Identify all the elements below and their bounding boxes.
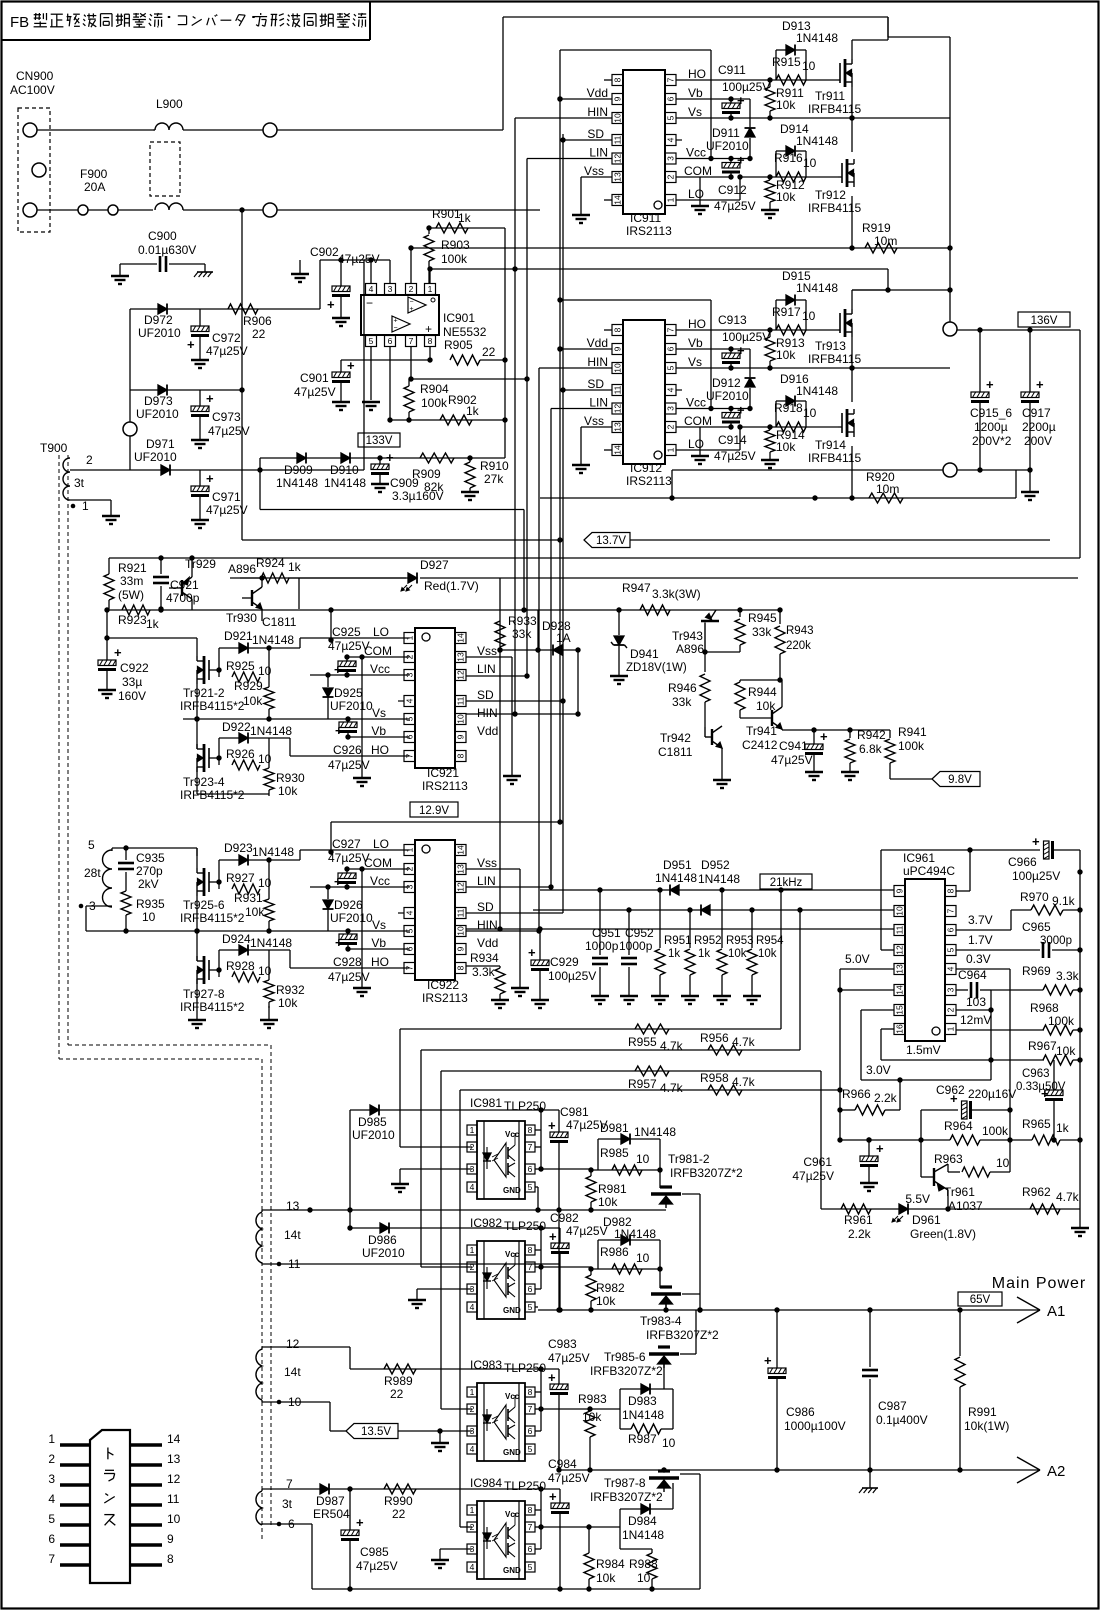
- svg-text:10: 10: [662, 1436, 676, 1450]
- svg-text:1N4148: 1N4148: [614, 1227, 656, 1241]
- diode D922: [239, 733, 248, 744]
- svg-text:C951: C951: [592, 926, 621, 940]
- svg-text:4: 4: [666, 387, 676, 392]
- svg-text:270p: 270p: [136, 864, 163, 878]
- wire right rail x1080: [1079, 330, 1081, 558]
- diode D983 label: [622, 1394, 664, 1422]
- wire D909 line: [260, 457, 505, 459]
- svg-text:10k: 10k: [596, 1294, 616, 1308]
- transistor Tr925-6 label: [180, 898, 245, 925]
- svg-text:160V: 160V: [118, 689, 146, 703]
- ground D941: [610, 676, 628, 684]
- svg-text:Vcc: Vcc: [686, 146, 706, 160]
- wire 12 line: [262, 1347, 350, 1369]
- IC901 label: [443, 311, 487, 339]
- svg-text:+: +: [549, 1489, 557, 1504]
- resistor R943: [775, 610, 785, 680]
- svg-text:1N4148: 1N4148: [655, 871, 697, 885]
- svg-text:6: 6: [528, 1284, 533, 1294]
- transistor Tr941 label: [742, 724, 778, 752]
- IC911 pin label LO: [688, 187, 704, 201]
- resistor R921: [104, 558, 114, 609]
- IC921 pin label LO: [373, 625, 389, 639]
- diode D909: [297, 453, 306, 464]
- svg-text:C963: C963: [1022, 1068, 1050, 1080]
- resistor R934 label: [470, 951, 499, 979]
- svg-text:2: 2: [48, 1452, 55, 1466]
- svg-text:C971: C971: [212, 490, 241, 504]
- svg-text:R965: R965: [1022, 1117, 1051, 1131]
- svg-text:R967: R967: [1028, 1039, 1057, 1053]
- IC911 pin label Vdd: [587, 86, 608, 100]
- svg-text:1N4148: 1N4148: [796, 384, 838, 398]
- wire IC922 Vcc line: [310, 886, 410, 888]
- capacitor C962 label: [936, 1083, 1016, 1101]
- svg-text:IC961: IC961: [903, 851, 935, 865]
- svg-text:D910: D910: [330, 463, 359, 477]
- resistor R914 label: [776, 428, 805, 454]
- wire D927 right: [0, 0, 1, 1]
- svg-text:IRFB4115*2: IRFB4115*2: [180, 1000, 245, 1014]
- ground C900 left: [111, 264, 129, 284]
- transformer pins: [48, 1432, 180, 1566]
- ground IC901 pin5: [362, 402, 380, 410]
- ground C952: [620, 996, 638, 1004]
- svg-text:R953: R953: [726, 935, 754, 947]
- svg-text:1N4148: 1N4148: [622, 1528, 664, 1542]
- svg-text:D941: D941: [630, 647, 659, 661]
- capacitor C983 label: [548, 1337, 590, 1365]
- svg-text:1: 1: [428, 284, 433, 294]
- svg-text:3t: 3t: [282, 1497, 293, 1511]
- resistor R957: [441, 1066, 821, 1076]
- IC901 pin 1: [425, 269, 436, 295]
- svg-text:C961: C961: [803, 1155, 832, 1169]
- svg-text:100k: 100k: [1048, 1014, 1075, 1028]
- diode D910: [341, 453, 350, 464]
- resistor R926 label: [226, 747, 272, 766]
- svg-text:FB: FB: [10, 14, 29, 31]
- svg-text:C984: C984: [548, 1457, 577, 1471]
- wire IC921 Vss gnd: [466, 657, 521, 784]
- diode D981 label: [600, 1121, 676, 1139]
- IC922 pin label Vs: [372, 918, 386, 932]
- diode D909 label: [276, 463, 318, 490]
- svg-text:R981: R981: [598, 1182, 627, 1196]
- svg-text:5: 5: [666, 365, 676, 370]
- wire Tr911 source: [849, 87, 854, 121]
- voltage box 21kHz: [760, 874, 812, 889]
- wire Tr930 base link: [298, 578, 300, 609]
- wire 6 line: [262, 1524, 312, 1589]
- ground C961: [860, 1183, 878, 1191]
- wire C900 left: [120, 263, 157, 265]
- wire IC921 HO line: [290, 738, 410, 756]
- wire 3.0V to C964 node: [900, 1079, 991, 1081]
- IC912 pin label Vss: [584, 414, 604, 428]
- optocoupler IC984 TLP250: [467, 1501, 535, 1579]
- ground R934: [491, 1000, 509, 1008]
- IC912 pin label HIN: [587, 355, 608, 369]
- svg-text:1N4148: 1N4148: [276, 476, 318, 490]
- wire rail C y929: [466, 928, 894, 930]
- wire IC911 HO line: [676, 77, 838, 101]
- svg-text:47µ25V: 47µ25V: [328, 639, 370, 653]
- winding 7-6 labels: [277, 1477, 295, 1531]
- resistor R956 label: [700, 1031, 756, 1049]
- svg-text:16: 16: [895, 1024, 905, 1034]
- wire IC921 HIN line: [466, 711, 581, 716]
- wire x910 drop: [0, 0, 1, 1]
- IC IC912 IRS2113: [612, 320, 682, 488]
- diode D941 (zener): [611, 610, 627, 676]
- svg-text:33k: 33k: [672, 695, 692, 709]
- diode D922 label: [222, 720, 292, 738]
- IC983 label: [470, 1358, 546, 1375]
- resistor R906: [228, 304, 258, 314]
- svg-text:1N4148: 1N4148: [252, 845, 294, 859]
- wire IC922 LIN line: [466, 886, 551, 888]
- svg-text:6: 6: [388, 336, 393, 346]
- svg-text:100µ25V: 100µ25V: [722, 330, 770, 344]
- capacitor C963: [0, 0, 1, 1]
- wire Tr911 drain: [852, 40, 888, 59]
- svg-text:11: 11: [895, 925, 905, 934]
- diode D973: [158, 385, 167, 396]
- ground C973: [191, 440, 209, 448]
- wire IC911 LO line: [676, 174, 838, 200]
- svg-text:+: +: [548, 1118, 556, 1133]
- svg-text:D986: D986: [368, 1233, 397, 1247]
- winding 28t: [103, 850, 113, 907]
- op-amp triangle A: [408, 297, 426, 313]
- svg-text:8: 8: [428, 336, 433, 346]
- svg-text:200V: 200V: [1024, 434, 1052, 448]
- svg-text:3.0V: 3.0V: [866, 1063, 891, 1077]
- svg-text:13: 13: [286, 1199, 300, 1213]
- svg-text:6: 6: [528, 1544, 533, 1554]
- svg-text:Red(1.7V): Red(1.7V): [424, 579, 479, 593]
- resistor R924 label: [256, 556, 302, 574]
- capacitor C987 label: [876, 1399, 928, 1427]
- svg-text:Vss: Vss: [584, 164, 604, 178]
- svg-text:IRFB4115*2: IRFB4115*2: [180, 911, 245, 925]
- transistor Tr930 (NPN): [242, 578, 262, 621]
- wire IC912 LO line: [676, 424, 838, 450]
- ground C951: [591, 996, 609, 1004]
- resistor R954: [747, 910, 757, 996]
- ground under R pulldown: [761, 457, 779, 468]
- svg-text:Vs: Vs: [688, 355, 702, 369]
- diode D926: [323, 884, 334, 931]
- svg-text:IC983: IC983: [470, 1358, 502, 1372]
- resistor R988: [647, 1549, 657, 1589]
- resistor R910 label: [480, 459, 509, 486]
- resistor R910: [465, 455, 475, 492]
- wire x130 lower: [129, 390, 131, 422]
- ground right rail: [1071, 1209, 1089, 1236]
- wire IC921 LIN line: [466, 675, 527, 677]
- capacitor C917 label: [1022, 406, 1056, 448]
- wire D985 drop: [349, 1110, 351, 1228]
- capacitor C984: [549, 1489, 569, 1592]
- transistor Tr929 label: [185, 557, 256, 576]
- wire Tr925 drain from 28t: [196, 848, 198, 856]
- IC921 pin label HO: [371, 743, 389, 757]
- svg-text:7: 7: [946, 908, 956, 913]
- diode D973 label: [136, 394, 179, 421]
- diode D916: [786, 396, 795, 407]
- capacitor C926 label: [328, 743, 370, 772]
- svg-text:7: 7: [666, 77, 676, 82]
- svg-text:9: 9: [613, 346, 623, 351]
- capacitor C900: [160, 256, 166, 272]
- svg-text:10: 10: [167, 1512, 181, 1526]
- svg-text:C952: C952: [625, 926, 654, 940]
- svg-text:D961: D961: [912, 1213, 941, 1227]
- svg-text:Vcc: Vcc: [505, 1510, 520, 1519]
- svg-text:10k: 10k: [776, 440, 796, 454]
- IC961 pin 6: [945, 925, 956, 936]
- svg-text:1000p: 1000p: [585, 939, 619, 953]
- resistor R988 label: [629, 1557, 658, 1585]
- diode D924: [239, 945, 248, 956]
- svg-text:13: 13: [456, 652, 466, 662]
- svg-text:+: +: [425, 322, 432, 336]
- wire 28t bottom tap: [0, 0, 1, 1]
- svg-text:5: 5: [528, 1444, 533, 1454]
- capacitor C951: [592, 890, 608, 996]
- svg-text:C901: C901: [300, 371, 329, 385]
- transformer T900 label: [40, 441, 68, 455]
- transistor Tr943 label: [672, 629, 704, 656]
- capacitor C925: [334, 654, 410, 677]
- svg-text:1: 1: [82, 499, 89, 513]
- wire C901 to pin8 line: [341, 357, 433, 362]
- resistor R969 wire: [991, 987, 1083, 992]
- resistor R965: [1010, 1135, 1083, 1145]
- optocoupler IC982 TLP250: [467, 1241, 535, 1319]
- ground C972: [191, 360, 209, 368]
- svg-text:+: +: [548, 1370, 556, 1385]
- svg-text:10: 10: [456, 714, 466, 724]
- svg-text:D987: D987: [316, 1494, 345, 1508]
- wire Tr987-8 links: [680, 1474, 700, 1589]
- svg-text:R925: R925: [226, 659, 255, 673]
- ground R910: [461, 492, 479, 500]
- svg-text:4.7k: 4.7k: [660, 1081, 684, 1095]
- wire Tr941 collector: [780, 680, 782, 707]
- resistor R905: [450, 355, 508, 365]
- resistor R928 label: [226, 959, 272, 978]
- IC961 pin 11: [894, 925, 905, 936]
- resistor R985: [588, 1165, 662, 1175]
- resistor R904 label: [420, 382, 449, 410]
- resistor R987 label: [628, 1432, 676, 1450]
- resistor R909 label: [412, 467, 444, 494]
- svg-text:R928: R928: [226, 959, 255, 973]
- svg-text:2: 2: [946, 1007, 956, 1012]
- capacitor C925 label: [328, 625, 370, 653]
- wire IC984 outputs: [535, 1527, 541, 1549]
- wire x331b riser: [328, 822, 333, 855]
- wire Tr913 drain: [852, 290, 888, 309]
- diode D928 label: [542, 619, 571, 645]
- svg-text:LO: LO: [688, 437, 704, 451]
- svg-text:12: 12: [167, 1472, 181, 1486]
- wire Tr927-8 drain: [194, 928, 199, 961]
- svg-text:33k: 33k: [752, 625, 772, 639]
- IC901 markings: [366, 296, 435, 336]
- diode D925: [323, 672, 334, 719]
- svg-text:SD: SD: [587, 377, 604, 391]
- svg-text:R901: R901: [432, 207, 461, 221]
- svg-text:10k: 10k: [1056, 1044, 1076, 1058]
- T900 tap 3t label: [74, 476, 85, 490]
- resistor R944 label: [748, 685, 777, 713]
- IC961 pin 16: [894, 1024, 905, 1035]
- wire riser x364: [364, 260, 390, 470]
- svg-text:6: 6: [528, 1164, 533, 1174]
- diode D986: [347, 1223, 560, 1234]
- wire x888 drop: [887, 17, 889, 40]
- IC921 pin label Vss: [477, 644, 497, 658]
- svg-text:2: 2: [666, 424, 676, 429]
- optocoupler IC981 TLP250: [467, 1121, 535, 1199]
- svg-text:12: 12: [456, 882, 466, 892]
- svg-text:R955: R955: [628, 1035, 657, 1049]
- resistor R966: [840, 1080, 900, 1115]
- svg-text:R909: R909: [412, 467, 441, 481]
- capacitor C971: [191, 470, 214, 520]
- capacitor C986 label: [784, 1405, 846, 1433]
- IC922 pin label SD: [477, 900, 494, 914]
- svg-text:R987: R987: [628, 1432, 657, 1446]
- voltage box 133V: [358, 433, 400, 447]
- svg-text:4: 4: [470, 1562, 475, 1572]
- wire top rail: [503, 16, 888, 18]
- svg-text:100k: 100k: [982, 1124, 1009, 1138]
- ground R932: [260, 1006, 278, 1028]
- svg-text:C912: C912: [718, 183, 747, 197]
- connector CN900: [18, 108, 50, 232]
- IC912 pin label Vb: [688, 336, 703, 350]
- wire pin15 line: [861, 1010, 894, 1080]
- IC961 pin 14: [894, 985, 905, 996]
- svg-text:10: 10: [637, 1571, 651, 1585]
- wire Tr987-8 drain: [0, 0, 1, 1]
- diode D951: [670, 885, 679, 896]
- wire IC984 pin8 riser: [535, 1486, 544, 1549]
- svg-text:D951: D951: [663, 858, 692, 872]
- wire drive drops: [400, 1029, 460, 1527]
- svg-text:+: +: [986, 377, 994, 392]
- wire SD bus: [560, 134, 612, 913]
- svg-text:IRFB3207Z*2: IRFB3207Z*2: [646, 1328, 719, 1342]
- IC911 pin label HO: [688, 67, 706, 81]
- svg-text:IC981: IC981: [470, 1096, 502, 1110]
- IC961 pin 4: [945, 964, 956, 975]
- capacitor C964: [956, 968, 991, 1009]
- svg-text:Vcc: Vcc: [370, 662, 390, 676]
- diode D986 label: [362, 1233, 405, 1260]
- svg-text:100µ25V: 100µ25V: [1012, 869, 1060, 883]
- wire pin1 line: [427, 266, 890, 292]
- svg-text:Main Power: Main Power: [992, 1275, 1086, 1292]
- connector CN900 label: [10, 69, 55, 97]
- diode D914 label: [780, 122, 838, 148]
- svg-text:R969: R969: [1022, 964, 1051, 978]
- IC IC922 IRS2113: [398, 840, 468, 1005]
- svg-text:3.3k: 3.3k: [472, 965, 496, 979]
- svg-text:47µ25V: 47µ25V: [548, 1471, 590, 1485]
- IC921 pin label COM: [364, 644, 392, 658]
- svg-text:+: +: [394, 318, 398, 325]
- IC961 pin 2: [945, 1005, 956, 1016]
- svg-text:5: 5: [48, 1512, 55, 1526]
- wire R944 to Tr941 base: [740, 717, 772, 719]
- svg-text:8: 8: [456, 753, 466, 758]
- svg-text:1k: 1k: [288, 560, 302, 574]
- capacitor C914: [676, 403, 745, 430]
- capacitor C981: [548, 1110, 568, 1313]
- capacitor C952: [621, 910, 637, 996]
- wire Tr914 source: [849, 446, 854, 501]
- svg-text:D909: D909: [284, 463, 313, 477]
- svg-text:R957: R957: [628, 1077, 657, 1091]
- resistor R935: [121, 884, 131, 934]
- svg-text:+: +: [737, 403, 745, 418]
- wire Tr985-6 links: [663, 1363, 665, 1389]
- ground Tr927-8: [188, 984, 206, 1028]
- transistor Tr985-6 (MOSFET): [649, 1347, 679, 1368]
- svg-text:27k: 27k: [484, 472, 504, 486]
- svg-text:R942: R942: [857, 728, 886, 742]
- resistor R955: [400, 890, 781, 1034]
- resistor R934: [466, 966, 505, 1000]
- svg-text:7: 7: [666, 327, 676, 332]
- IC911 pin label Vss: [584, 164, 604, 178]
- svg-text:9: 9: [167, 1532, 174, 1546]
- svg-text:220k: 220k: [786, 640, 811, 652]
- wire IC912 Vdd stub: [557, 346, 612, 351]
- resistor R923: [104, 605, 299, 615]
- resistor R920: [540, 493, 1016, 503]
- transistor Tr961 collector: [948, 1164, 951, 1172]
- transformer T900 primary winding: [63, 458, 70, 500]
- resistor R991 label: [964, 1405, 1009, 1433]
- wire IC912 pin14 stub: [604, 449, 612, 451]
- svg-text:R944: R944: [748, 685, 777, 699]
- svg-text:1: 1: [470, 1245, 475, 1255]
- transistor Tr913 label: [808, 339, 861, 366]
- wire rail y578: [240, 575, 1078, 580]
- resistor R952: [685, 910, 695, 996]
- ground left of C902: [291, 260, 309, 282]
- resistor R964 label: [944, 1119, 1009, 1138]
- capacitor C986: [764, 1310, 786, 1470]
- svg-text:Tr981-2: Tr981-2: [668, 1152, 710, 1166]
- resistor R969: [1043, 985, 1073, 995]
- svg-text:13.7V: 13.7V: [596, 535, 626, 547]
- svg-text:IRFB4115*2: IRFB4115*2: [180, 699, 245, 713]
- svg-text:+: +: [528, 945, 536, 960]
- svg-text:LO: LO: [373, 837, 389, 851]
- inductor L900 top winding: [153, 123, 183, 130]
- svg-text:+: +: [187, 337, 195, 352]
- T900 tap 2 label: [86, 453, 93, 467]
- capacitor C922 label: [118, 661, 149, 703]
